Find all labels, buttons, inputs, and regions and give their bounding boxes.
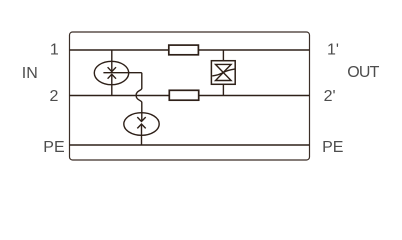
svg-text:2': 2' (324, 88, 336, 105)
svg-text:OUT: OUT (347, 64, 379, 81)
svg-text:PE: PE (43, 139, 64, 156)
svg-text:2: 2 (49, 88, 58, 105)
resistor R2 (line 2) (169, 90, 198, 100)
gas discharge tube F1 (3-electrode arrester) (94, 50, 142, 96)
wire from F1 middle electrode, hop crossover over line 2 (136, 73, 142, 122)
svg-text:1: 1 (50, 42, 59, 59)
svg-text:1': 1' (327, 41, 339, 58)
svg-text:IN: IN (22, 65, 38, 82)
suppressor diode U1 (bidirectional TVS in box) (211, 50, 235, 96)
svg-text:PE: PE (322, 139, 343, 156)
resistor R1 (line 1) (169, 45, 199, 55)
wire line 1 (1 to 1') (70, 49, 310, 51)
wire PE line (70, 144, 310, 146)
wire line 2 (2 to 2') (70, 95, 310, 97)
enclosure box (70, 32, 310, 160)
gas discharge tube F2 (2-electrode arrester to PE) (124, 113, 159, 145)
